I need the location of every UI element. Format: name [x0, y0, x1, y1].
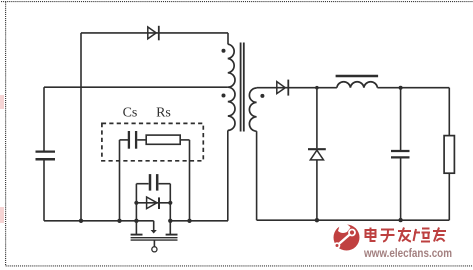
page dotted border bottom — [6, 265, 473, 267]
node junction diode top — [315, 86, 319, 90]
watermark logo circle — [334, 224, 360, 251]
wire inductor to output — [377, 87, 449, 89]
wire snubber inner left — [120, 139, 129, 141]
transformer core line left — [240, 43, 242, 132]
snubber dashed box — [102, 123, 203, 160]
wire secondary bottom lead — [256, 131, 258, 220]
transistor Q1 MOSFET right contact bar — [166, 234, 178, 236]
wire right edge top — [448, 88, 450, 136]
node clamp left — [134, 201, 138, 205]
page dotted border top — [1, 1, 473, 3]
resistor R1 load — [444, 136, 454, 174]
wire freewheel diode bottom lead — [316, 160, 318, 220]
wire bottom rail secondary — [257, 219, 450, 221]
page dotted border left — [5, 2, 7, 266]
transformer dot primary top — [222, 49, 226, 53]
watermark text 电子发烧友 (stylized) — [366, 228, 447, 242]
transistor Q1 gate lead — [153, 240, 155, 246]
left edge artifact upper — [0, 95, 4, 109]
wire clamp cap left lead — [136, 183, 148, 185]
inductor L1 (3 arcs) — [337, 82, 378, 88]
wire left clamp vertical x81 — [80, 33, 82, 221]
node junction x119.5 — [117, 219, 121, 223]
wire primary tap rail y87 — [44, 86, 228, 88]
transformer T1 primary winding lower (3 arcs) — [228, 87, 235, 130]
node junction freewheel bottom — [315, 218, 319, 222]
transistor Q1 MOSFET left contact bar — [131, 234, 143, 236]
node junction x170.3 — [168, 219, 172, 223]
node junction x81 — [79, 219, 83, 223]
wire snubber left stub — [119, 140, 121, 221]
inductor L1 core bar — [336, 75, 379, 77]
wire clamp left stub — [135, 184, 137, 235]
capacitor C1 input — [36, 152, 56, 160]
transistor Q1 gate terminal circle — [152, 247, 157, 252]
wire output cap top lead — [400, 88, 402, 150]
wire transformer top lead — [227, 33, 229, 44]
node junction output cap top — [399, 86, 403, 90]
wire input cap bottom lead — [43, 160, 45, 221]
wire snubber inner right — [180, 139, 189, 141]
wire clamp cap right lead — [159, 183, 171, 185]
node junction x189.5 — [187, 219, 191, 223]
wire snubber mid — [137, 139, 146, 141]
wire top rail primary — [81, 32, 228, 34]
diode D4 freewheel (outline, pointing up) — [308, 149, 326, 160]
svg-text:Rs: Rs — [156, 106, 171, 121]
svg-text:Cs: Cs — [123, 106, 138, 121]
node junction x136.4 — [134, 219, 138, 223]
wire bottom rail primary left segment — [44, 220, 154, 222]
transistor Q1 body lead with arrow — [151, 221, 157, 234]
wire output cap bottom lead — [400, 158, 402, 220]
wire right edge bottom — [448, 173, 450, 220]
resistor Rs — [146, 135, 180, 144]
wire secondary top rail — [257, 87, 337, 89]
capacitor C2 clamp — [150, 174, 157, 191]
transformer dot primary mid — [222, 94, 226, 98]
left edge artifact lower — [0, 207, 4, 223]
transistor Q1 MOSFET gate bar — [131, 239, 178, 241]
transformer core line right — [243, 43, 245, 132]
transformer T1 secondary winding (3 arcs) — [249, 88, 256, 131]
capacitor C3 output — [391, 151, 410, 157]
diode D3 clamp (outline, pointing right) — [147, 197, 159, 209]
capacitor Cs — [129, 131, 136, 149]
transformer T1 primary winding upper (3 arcs) — [228, 44, 235, 87]
wire clamp right stub — [169, 184, 171, 235]
svg-text:www.elecfans.com: www.elecfans.com — [363, 246, 452, 260]
wire freewheel diode top lead — [316, 88, 318, 149]
transistor Q1 MOSFET channel bar — [131, 237, 178, 239]
wire snubber right stub — [189, 140, 191, 221]
wire bottom rail primary right segment — [170, 220, 228, 222]
diode D2 rectifier (outline, pointing right) — [277, 80, 289, 96]
node junction output cap bottom — [398, 218, 402, 222]
wire primary bottom lead — [227, 130, 229, 220]
wire input cap top lead — [43, 87, 45, 151]
diode D1 reset (outline, pointing right) — [148, 26, 159, 41]
wire clamp diode lead — [136, 202, 170, 204]
node clamp right — [168, 201, 172, 205]
transformer dot secondary — [260, 94, 264, 98]
